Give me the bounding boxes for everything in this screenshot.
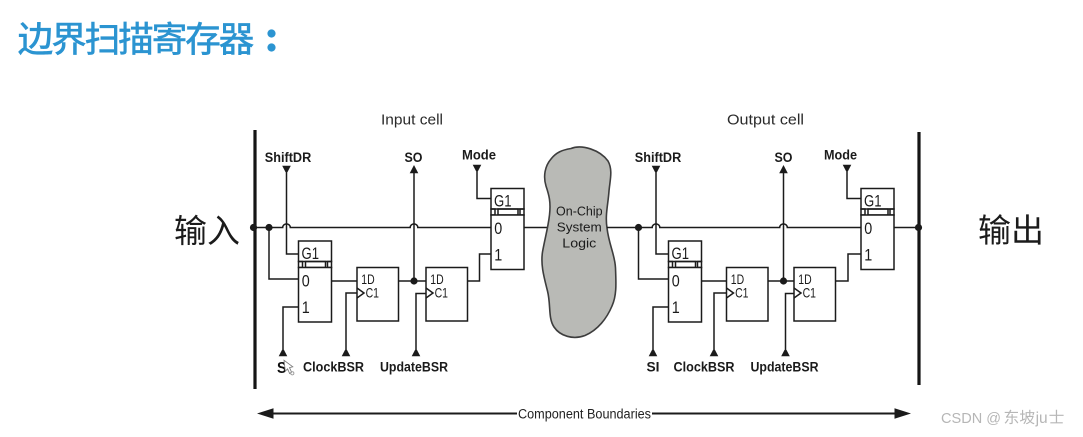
flip-flop FF3 (output-cell capture): clock wedge (727, 288, 734, 298)
svg-text:1: 1 (302, 298, 310, 317)
arrowhead: UpdateBSR up arrow (output cell) (781, 348, 790, 356)
wire: ClockBSR up to FF1 C1 (input cell) (346, 293, 357, 349)
mouse cursor artifact over SI label (input cell) (277, 360, 294, 377)
svg-text:UpdateBSR: UpdateBSR (380, 360, 448, 375)
wire: tap down to mux M1 input 0 (269, 228, 299, 280)
svg-text:Mode: Mode (462, 148, 496, 163)
left component boundary line (253, 130, 256, 389)
flip-flop FF3 (output-cell capture): box (727, 268, 769, 322)
arrowhead: SI up arrow (input cell) (279, 348, 288, 356)
wire: output-cell parallel wire to mode mux, hops over ShiftDR and SO (639, 224, 862, 228)
wire: parallel input from left boundary to mode mux, hops over ShiftDR and SO (253, 224, 491, 228)
svg-text:0: 0 (672, 272, 680, 291)
svg-text:CSDN @: CSDN @ (941, 410, 1001, 427)
svg-text:Mode: Mode (824, 148, 857, 163)
svg-text:ShiftDR: ShiftDR (635, 150, 682, 165)
node label 输出 (output) (979, 214, 1040, 244)
arrowhead: SO up arrow (input cell) (410, 165, 419, 173)
svg-text:ClockBSR: ClockBSR (674, 360, 735, 375)
wire: FF2 output up to mux M2 input 1 (468, 254, 492, 281)
node: junction dot between FF1 and FF2 (SO tap) (410, 277, 417, 284)
flip-flop FF4 (output-cell update latch): clock wedge (794, 288, 801, 298)
svg-text:1: 1 (672, 298, 680, 317)
arrowhead: ShiftDR down arrow (input cell) (282, 166, 291, 174)
component boundaries double arrow (257, 408, 911, 419)
svg-text:On-Chip: On-Chip (556, 204, 603, 219)
wire: tap down to mux M3 input 0 (639, 228, 669, 280)
svg-text:SI: SI (647, 360, 660, 375)
wire: mux M4 output to right boundary (输出) (894, 227, 919, 229)
svg-text:System: System (557, 219, 602, 234)
arrowhead: ClockBSR up arrow (input cell) (342, 348, 351, 356)
svg-text:G1: G1 (864, 192, 882, 210)
wire: UpdateBSR up to FF2 C1 (input cell) (416, 294, 426, 350)
svg-text:Logic: Logic (562, 236, 597, 251)
mux M3 (output-cell scan mux): G1 select box with tab (669, 241, 702, 268)
svg-text:0: 0 (494, 219, 502, 238)
wire: FF1 output to FF2 1D (399, 280, 427, 282)
wire: FF3 output to FF4 1D (768, 280, 794, 282)
node label 输入 (input) (175, 215, 238, 245)
arrowhead: Mode down arrow (input cell) (473, 165, 482, 173)
wire: on-chip logic to output cell (607, 227, 639, 229)
right component boundary line (917, 132, 920, 385)
flip-flop FF2 (input-cell update latch): box (426, 268, 468, 322)
svg-text:G1: G1 (672, 245, 690, 263)
mux M3 (output-cell scan mux): data box (669, 268, 702, 323)
svg-text:0: 0 (302, 272, 310, 291)
flip-flop FF2 (input-cell update latch): clock wedge (426, 288, 433, 298)
wire: SO from FF junction up (input cell) (413, 173, 415, 281)
wire: FF4 output up to mux M4 input 1 (836, 254, 862, 281)
mux M1 (input-cell scan mux): data box (299, 268, 332, 323)
svg-text:SO: SO (405, 150, 423, 165)
svg-text:0: 0 (864, 219, 872, 238)
on-chip system logic blob (542, 147, 616, 337)
svg-text:ClockBSR: ClockBSR (303, 360, 364, 375)
wire: Mode to mux M4 G1 select (output cell) (847, 172, 861, 199)
mux M4 (output-cell mode mux): data box (861, 215, 894, 270)
svg-text:G1: G1 (494, 192, 512, 210)
svg-text:Component Boundaries: Component Boundaries (518, 407, 651, 422)
node: junction dot tapping parallel input (265, 224, 272, 231)
wire: ShiftDR to mux M3 G1 select (output cell) (656, 173, 669, 254)
svg-text:UpdateBSR: UpdateBSR (751, 360, 819, 375)
wire: SI up into mux M3 input 1 (653, 307, 669, 349)
wire: SO from FF junction up (output cell) (783, 173, 785, 281)
title text 边界扫描寄存器： (blue heading) (18, 21, 275, 55)
wire: SI up into mux M1 input 1 (283, 307, 299, 349)
watermark CSDN @东坡ju士 (941, 410, 1064, 427)
svg-text:Input cell: Input cell (381, 112, 443, 129)
svg-text:C1: C1 (366, 285, 380, 301)
flip-flop FF4 (output-cell update latch): box (794, 268, 836, 322)
svg-text:Output cell: Output cell (727, 112, 804, 129)
wire: ClockBSR up to FF3 C1 (output cell) (714, 293, 727, 349)
svg-text:C1: C1 (803, 285, 817, 301)
svg-text:SO: SO (775, 150, 793, 165)
svg-text:ShiftDR: ShiftDR (265, 150, 312, 165)
arrowhead: ClockBSR up arrow (output cell) (710, 348, 719, 356)
node: junction dot between FF3 and FF4 (SO tap) (780, 277, 787, 284)
arrowhead: Mode down arrow (output cell) (843, 165, 852, 173)
svg-text:1: 1 (494, 246, 502, 265)
label On-Chip System Logic (556, 204, 603, 251)
node: junction dot on left boundary (输入 entry) (250, 224, 257, 231)
mux M4 (output-cell mode mux): G1 select box with tab (861, 189, 894, 216)
mux M1 (input-cell scan mux): G1 select box with tab (299, 241, 332, 268)
wire: ShiftDR to mux M1 G1 select (input cell) (287, 173, 299, 254)
flip-flop FF1 (input-cell capture): box (357, 268, 399, 322)
svg-text:C1: C1 (435, 285, 449, 301)
wire: mux M1 output to FF1 1D (332, 280, 358, 282)
arrowhead: ShiftDR down arrow (output cell) (652, 166, 661, 174)
wire: Mode to mux M2 G1 select (input cell) (477, 172, 491, 199)
arrowhead: SI up arrow (output cell) (649, 348, 658, 356)
node: junction dot after on-chip logic (635, 224, 642, 231)
wire: UpdateBSR up to FF4 C1 (output cell) (786, 294, 795, 350)
mux M2 (input-cell mode mux): data box (491, 215, 524, 270)
node: junction dot on right boundary (输出 exit) (915, 224, 922, 231)
svg-text:1: 1 (864, 246, 872, 265)
svg-text:C1: C1 (735, 285, 749, 301)
wire: mux M2 output to on-chip logic (524, 227, 550, 229)
wire: mux M3 output to FF3 1D (702, 280, 727, 282)
arrowhead: UpdateBSR up arrow (input cell) (412, 348, 421, 356)
arrowhead: SO up arrow (output cell) (779, 165, 788, 173)
mux M2 (input-cell mode mux): G1 select box with tab (491, 189, 524, 216)
svg-text:G1: G1 (302, 245, 320, 263)
flip-flop FF1 (input-cell capture): clock wedge (357, 288, 364, 298)
svg-text:ju: ju (1035, 410, 1048, 427)
